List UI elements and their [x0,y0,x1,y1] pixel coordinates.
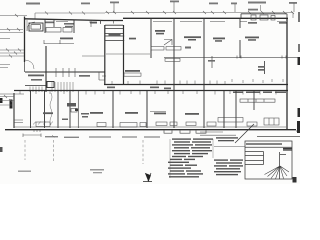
main corridor bottom wall [14,90,288,92]
blob right of detail box [293,177,297,183]
notes text block [168,138,213,177]
main corridor top wall [104,84,288,86]
left edge wing wall blob [0,98,13,109]
toilet fixtures small boxes [14,109,77,123]
door text cluster near corridor mid [107,87,171,90]
wavy pipe line [50,93,52,125]
marks row under corridor right section [233,92,286,94]
jan label under corridor [31,75,90,81]
room labels bottom band [43,103,199,115]
toilet blob [75,109,79,112]
plumbing chase wall [77,91,79,128]
right bottom dimension lines [200,132,236,135]
windows below top wall [56,21,286,24]
bottom band partitions [13,93,15,128]
bottom dimension bracket left [23,134,41,138]
small stubs above stairs [56,68,75,77]
bottom dimension dashes [45,136,160,138]
room label left room [60,38,73,40]
left wing corridor top wall [25,71,105,73]
left wing extension line [0,93,24,95]
grid tick verticals [114,2,294,13]
detail box bottom right [245,141,292,179]
door box classroom [164,40,172,46]
casework rects top band [124,47,181,77]
door jambs at lobby/corridor [99,72,106,80]
casework lines mid upper [82,54,150,56]
door arc left wall [25,60,34,69]
long casework row right bottom room [240,99,275,102]
porch bump right [241,14,287,18]
entry lobby walls (mid) [104,25,106,85]
room labels top band [90,22,259,72]
hatch marks lower-left room [33,122,53,133]
left dimension stubs [0,28,24,58]
left exterior wall [24,17,26,63]
partition x45 upper [44,20,46,34]
dashed projection lines [25,140,143,164]
closet marks x264 [258,66,265,71]
left wing mid wall [25,85,46,87]
notes right sub-column [214,137,243,175]
door steps below bottom wall [164,131,206,134]
small marks right of vestibule [44,40,74,44]
left edge mid lines [0,65,14,106]
line above detail box to right edge [257,136,300,138]
door swing top-left [27,20,35,31]
left wing wall x46 [45,46,47,92]
north arrow symbol [143,173,152,182]
top band partitions [150,18,152,58]
casework top-left room [46,28,72,33]
diagonal leader [235,124,254,143]
wall ticks near entry [101,21,114,24]
detail fan lines [265,166,290,179]
window divider tick [91,21,101,28]
vestibule box top-left [29,23,43,31]
partition x54 stub [53,20,55,28]
left edge lower blob [0,147,3,152]
casework line y57 [164,56,298,59]
top exterior wall right part [123,17,288,19]
tiny labels under wall [45,22,287,28]
casework rects bottom band [36,118,279,128]
notes block bracket lines [170,139,213,178]
stair dark box [47,82,54,88]
closet wall x212 [211,56,213,68]
right exterior wall [286,18,288,130]
corridor label left wing [28,75,44,77]
line from notes to detail box [214,146,245,148]
right edge scan marks [297,57,300,133]
stair treads left wing [30,82,73,92]
bottom exterior wall [14,126,286,128]
corridor bottom door marks [20,91,276,95]
top dimension line [0,11,294,19]
faint text left of arrow [18,169,104,173]
partition x74 upper [73,20,75,34]
porch columns [251,15,275,20]
top exterior wall left part [25,19,124,21]
top tiny dimension text [26,1,297,5]
vestibule inner box [105,36,125,40]
corridor door ticks above [112,79,283,84]
